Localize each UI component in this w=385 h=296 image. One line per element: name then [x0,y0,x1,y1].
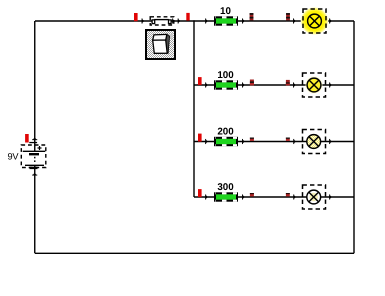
current blob (striped) row2 mid [250,80,254,86]
current arrow row2 after resistor [242,82,245,87]
svg-text:10: 10 [220,6,231,17]
junction J1 top wire to feeder [193,20,194,21]
wire right vertical [353,21,355,253]
wire top horizontal [35,20,153,22]
label R1 value 10 [220,6,231,17]
lamp L3 [303,130,326,154]
svg-text:9V: 9V [8,152,20,162]
resistor R4 300 [215,193,237,200]
current arrow row1 before lamp [293,18,296,23]
lamp L2 [303,73,326,97]
lamp L2 glow [305,76,324,95]
current blob (striped) row1 before lamp [286,13,290,21]
svg-text:100: 100 [217,70,234,81]
resistor R3 200 [215,138,237,145]
resistor R2 100 [215,81,237,88]
current arrow on top wire before switch [142,18,145,23]
current blob (red) after switch [186,13,189,21]
current arrow row1 after lamp [329,18,332,23]
current arrow row4 after feeder [205,194,208,199]
switch control box (rocker button) [146,30,175,59]
current arrow row4 after lamp [329,194,332,199]
current arrow after switch [172,18,180,23]
current blob (striped) row1 mid [250,13,254,21]
current blob (red) on top wire before switch [134,13,138,21]
wire top horizontal (after switch) [171,20,354,22]
current blob (striped) row4 before lamp [286,193,290,196]
svg-text:200: 200 [217,127,234,138]
current blob (red) row3 at feeder [198,134,202,142]
wire row4 horizontal [194,196,354,198]
current arrow row2 after feeder [205,82,208,87]
wire bottom horizontal [35,252,354,254]
wire row3 horizontal [194,141,354,143]
current blob (red) row2 at feeder [198,77,202,85]
current arrow row1 after resistor [242,18,245,23]
current blob (striped) row3 mid [250,138,254,141]
label R2 value 100 [217,70,234,81]
lamp L4 [303,185,326,209]
current arrow row2 after lamp [329,82,332,87]
lamp L1 [303,9,326,33]
current arrow row1 after junction [205,18,208,23]
current arrow row3 after resistor [242,139,245,144]
svg-text:300: 300 [217,182,234,193]
current blob (striped) row4 mid [250,193,254,196]
current arrow above battery (up) [29,137,37,143]
current arrow row3 after lamp [329,139,332,144]
lamp L1 glow [300,7,328,35]
current arrow row4 before lamp [293,194,296,199]
current arrow row3 after feeder [205,139,208,144]
current arrow row3 before lamp [293,139,296,144]
resistor R1 10 [215,17,237,24]
current blob (red) row4 at feeder [198,189,202,197]
battery BT1 9V [21,145,46,168]
label battery value 9V [8,152,20,162]
wire feeder vertical [193,21,195,197]
current arrow below battery (up) [32,173,37,176]
wire left vertical (lower segment) [34,165,36,253]
wire left vertical (upper segment) [34,21,36,151]
label R4 value 300 [217,182,234,193]
current arrow row2 before lamp [293,82,296,87]
label R3 value 200 [217,127,234,138]
current arrow row4 after resistor [242,194,245,199]
current blob (striped) row3 before lamp [286,138,290,141]
wire row2 horizontal [194,84,354,86]
current blob (red) left wire above battery [25,134,29,143]
switch SW1 (closed) [150,17,174,25]
current blob (striped) row2 before lamp [286,80,290,85]
